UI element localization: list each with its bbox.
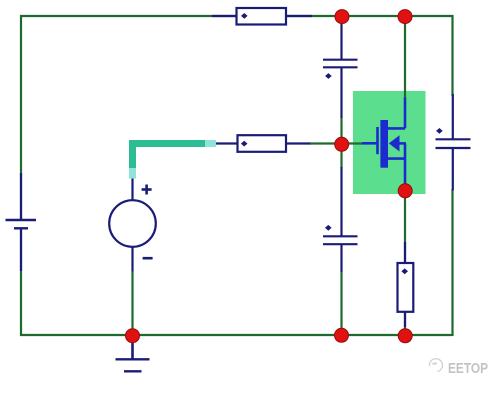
wire left rail lower <box>20 229 22 337</box>
capacitor C3 pin-1 marker <box>436 128 443 134</box>
node junction bottom-middle <box>335 328 349 342</box>
wire bottom rail <box>20 334 453 336</box>
mosfet M1 symbol <box>362 98 406 192</box>
battery V1 symbol <box>6 220 37 228</box>
wire source column lower <box>404 191 406 335</box>
capacitor C1 pin lower <box>340 68 342 119</box>
node junction source <box>398 184 412 198</box>
resistor R2 pin left <box>216 142 238 144</box>
svg-text:EETOP: EETOP <box>448 361 488 377</box>
resistor R2 pin-1 marker <box>241 141 248 147</box>
highlighted net light tip bottom <box>129 168 136 179</box>
voltage source V2 minus <box>143 257 153 260</box>
node junction bottom-right <box>398 329 412 343</box>
capacitor C2 pin-1 marker <box>325 225 332 231</box>
highlighted net light tip right <box>205 140 216 147</box>
resistor R1 pin left <box>212 15 237 17</box>
capacitor C3 pin lower <box>452 149 454 191</box>
highlighted net (teal) horizontal <box>133 140 210 147</box>
wire drain column upper <box>404 17 406 99</box>
resistor R1 body <box>237 8 287 25</box>
resistor R2 pin right <box>286 142 311 144</box>
ground symbol <box>116 340 150 371</box>
wire right rail upper <box>451 15 453 96</box>
capacitor C2 pin lower <box>340 245 342 273</box>
wire left rail upper <box>20 15 22 220</box>
resistor R3 body <box>398 263 414 312</box>
node junction gate <box>335 137 349 151</box>
wire right rail lower <box>451 189 453 336</box>
highlighted net (teal) vertical <box>129 140 136 170</box>
capacitor C1 pin upper <box>340 17 342 60</box>
resistor R2 body <box>238 135 287 152</box>
node junction top-left <box>335 10 349 24</box>
resistor R3 pin-1 marker <box>401 268 408 274</box>
capacitor C1 pin-1 marker <box>325 73 332 79</box>
capacitor C2 plates <box>323 236 358 244</box>
resistor R3 pin upper <box>404 242 406 264</box>
node junction top-right <box>398 10 412 24</box>
mosfet M1 highlight box <box>353 91 426 194</box>
watermark EETOP logo <box>429 359 442 372</box>
voltage source V2 plus <box>142 185 152 195</box>
wire gate-left green <box>310 142 342 144</box>
battery V1 pin upper <box>20 173 22 220</box>
capacitor C3 plates <box>436 139 471 148</box>
resistor R1 pin right <box>286 15 312 17</box>
capacitor C2 pin upper <box>340 167 342 236</box>
voltage source V2 pin lower <box>131 246 133 272</box>
wire top rail <box>20 15 454 17</box>
voltage source V2 circle <box>109 200 156 247</box>
wire middle column C1-to-gate <box>340 118 342 169</box>
battery V1 pin lower <box>20 229 22 272</box>
wire source-to-ground green <box>131 271 133 335</box>
node junction bottom-left <box>126 329 140 343</box>
resistor R1 pin-1 marker <box>241 13 248 19</box>
voltage source V2 pin upper <box>131 179 133 202</box>
capacitor C3 pin upper <box>452 94 454 139</box>
wire middle column C2-to-bottom <box>340 272 342 336</box>
capacitor C1 plates <box>323 60 358 68</box>
resistor R3 pin lower <box>404 312 406 328</box>
wire gate net green <box>342 142 363 144</box>
